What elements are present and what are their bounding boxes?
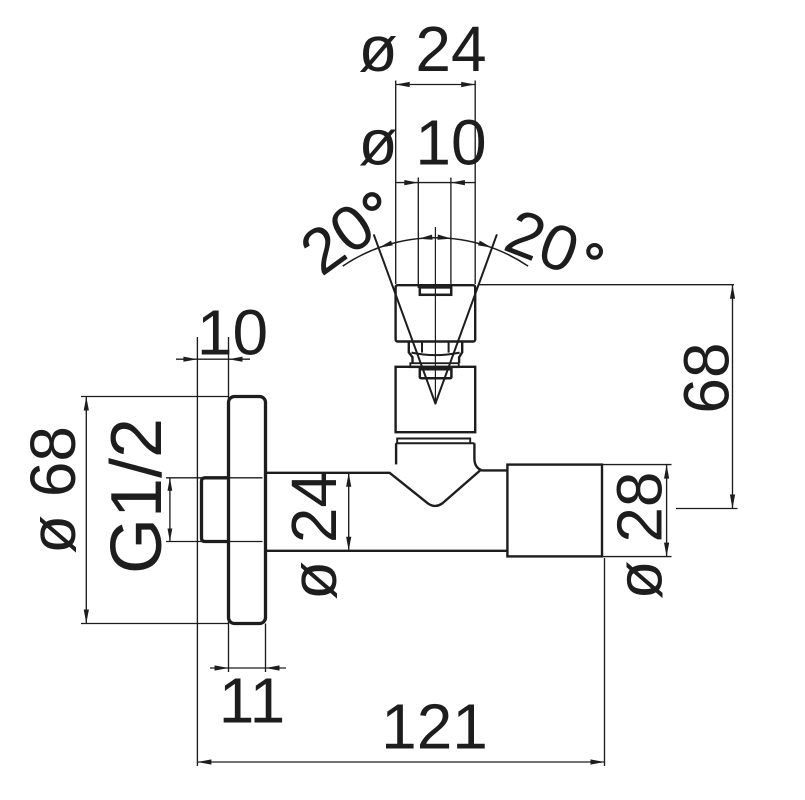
arrow phi68 top bbox=[84, 397, 89, 411]
dim line phi24 top bbox=[396, 84, 476, 86]
arrow phi28 top bbox=[664, 465, 669, 479]
arc arrow right of centre bbox=[437, 235, 451, 240]
dim ext line cap right end bbox=[604, 558, 606, 766]
dim ext line flange left face bbox=[228, 337, 230, 672]
svg-text:68: 68 bbox=[671, 342, 743, 413]
svg-text:ø 24: ø 24 bbox=[278, 472, 350, 600]
svg-text:ø 10: ø 10 bbox=[358, 107, 486, 179]
arrow phi24 pipe bottom bbox=[346, 537, 351, 551]
bonnet nut facet right bbox=[448, 343, 450, 353]
arrow 11 right bbox=[266, 665, 280, 670]
arrow phi24 right bbox=[461, 82, 475, 87]
dim ext line cap top bbox=[603, 464, 672, 466]
G1/2 inlet stub bbox=[202, 478, 229, 542]
angle dimension arc bbox=[343, 238, 528, 266]
inlet pipe top edge with V notch bbox=[266, 470, 481, 506]
dim line 10 bbox=[176, 358, 250, 360]
lower body right edge to outlet bbox=[474, 443, 507, 470]
arrow phi24 left bbox=[396, 82, 410, 87]
dim line phi28 bbox=[666, 465, 668, 557]
arrow 121 right bbox=[591, 759, 605, 764]
dim line 11 bbox=[210, 667, 286, 669]
svg-text:G1/2: G1/2 bbox=[97, 418, 177, 574]
arrow phi10 right bbox=[451, 180, 465, 185]
svg-text:10: 10 bbox=[197, 297, 268, 369]
arc arrow at right ray bbox=[478, 241, 492, 248]
dim ext line flange top bbox=[81, 396, 228, 398]
arrow G12 bottom bbox=[168, 529, 173, 542]
svg-text:11: 11 bbox=[219, 665, 285, 737]
left 20-degree ray bbox=[374, 235, 435, 403]
dim ext line handle right bbox=[474, 81, 476, 285]
inlet pipe bottom edge bbox=[266, 550, 508, 552]
right 20-degree ray bbox=[435, 235, 496, 403]
body groove band bbox=[397, 439, 470, 444]
dim ext line flange right face bbox=[265, 624, 267, 673]
svg-text:ø 28: ø 28 bbox=[604, 471, 676, 599]
valve body bbox=[396, 367, 476, 432]
dim ext line stub left end bbox=[196, 337, 198, 766]
arrow phi68 bottom bbox=[84, 610, 89, 624]
svg-text:20: 20 bbox=[496, 195, 588, 288]
arrow phi10 left bbox=[404, 180, 418, 185]
dim line G12 bbox=[169, 478, 171, 542]
dim line 68 right bbox=[732, 285, 734, 509]
wall flange bbox=[229, 397, 266, 624]
arrow 121 left bbox=[197, 759, 211, 764]
arc arrow at left ray bbox=[379, 241, 393, 248]
arc arrow left of centre bbox=[418, 235, 432, 240]
lower body shoulder line bbox=[396, 442, 475, 444]
dim ext line notch left bbox=[417, 178, 419, 289]
lower body left edge bbox=[395, 443, 397, 464]
dim line 121 bbox=[197, 761, 604, 763]
svg-text:ø 24: ø 24 bbox=[358, 13, 486, 85]
stem collar bbox=[420, 369, 452, 378]
dim line phi24 pipe bbox=[348, 473, 350, 551]
arrow 10 left bbox=[183, 357, 197, 362]
degree circle right bbox=[588, 245, 601, 258]
valve handle cap bbox=[396, 285, 476, 341]
outlet end cap bbox=[507, 465, 602, 557]
dim ext line stub top bbox=[166, 477, 263, 479]
svg-text:121: 121 bbox=[381, 691, 488, 763]
svg-text:20: 20 bbox=[287, 189, 387, 289]
dim ext line notch right bbox=[450, 178, 452, 289]
bonnet nut curved base bbox=[412, 353, 460, 356]
arrow 10 right bbox=[229, 357, 243, 362]
arrow 11 left bbox=[215, 665, 229, 670]
arrow phi28 bottom bbox=[664, 543, 669, 557]
bonnet nut facet left bbox=[421, 343, 423, 353]
arrow 68 bottom bbox=[730, 495, 735, 509]
handle top notch bbox=[420, 287, 451, 294]
dim line phi68 bbox=[85, 397, 87, 624]
svg-text:ø 68: ø 68 bbox=[17, 426, 89, 554]
dim ext line handle left bbox=[395, 81, 397, 285]
valve centerline bbox=[434, 227, 436, 402]
arrow G12 top bbox=[168, 478, 173, 491]
dim line phi10 bbox=[396, 182, 475, 184]
arrow phi24 pipe top bbox=[346, 473, 351, 487]
dim ext line flange bottom bbox=[81, 623, 228, 625]
bonnet ring bbox=[410, 363, 458, 367]
dim ext line cap bottom bbox=[603, 556, 672, 558]
dim ext line handle top right bbox=[478, 284, 734, 286]
degree circle left bbox=[365, 194, 379, 208]
dim ext line pipe axis right bbox=[676, 508, 738, 510]
dim ext line stub bottom bbox=[166, 541, 263, 543]
arrow 68 top bbox=[730, 285, 735, 299]
bonnet nut outline bbox=[409, 343, 462, 364]
